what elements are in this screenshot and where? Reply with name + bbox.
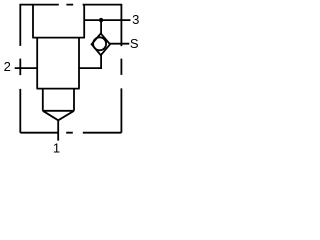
svg-text:3: 3 xyxy=(132,12,139,27)
svg-text:S: S xyxy=(130,36,139,51)
valve nose section xyxy=(43,89,74,111)
cartridge boundary: left edge (phantom dashes) xyxy=(19,4,21,133)
funnel to port 1 xyxy=(43,111,74,121)
cartridge boundary: top edge (phantom dashes) xyxy=(20,4,121,6)
svg-text:2: 2 xyxy=(4,59,11,74)
wire: check valve drain to body xyxy=(79,55,101,68)
cartridge boundary: right edge (phantom dashes) xyxy=(120,4,122,133)
cartridge boundary: bottom edge (phantom dashes) xyxy=(20,132,121,134)
wire: junction to check valve V1 xyxy=(100,20,102,33)
svg-text:1: 1 xyxy=(53,141,60,154)
wire: port S line xyxy=(110,43,129,45)
valve main body xyxy=(37,38,80,89)
wire: port 2 stub xyxy=(15,67,38,69)
wire: port 1 lead xyxy=(57,120,59,140)
wire: port 3 line xyxy=(84,19,130,21)
check valve V1: diamond xyxy=(92,33,110,55)
valve upper section (pilot head) xyxy=(32,5,85,38)
check valve V1: ball xyxy=(93,37,106,50)
node: junction dot on port 3 line xyxy=(99,18,103,22)
